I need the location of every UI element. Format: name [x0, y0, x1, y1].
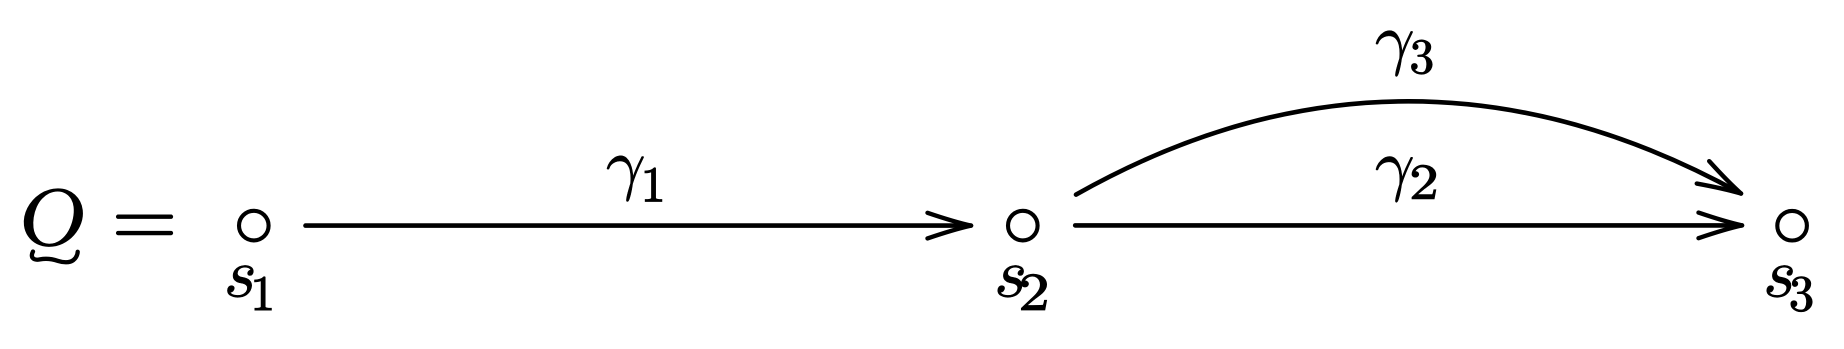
node label s1: subscript 1 — [255, 277, 272, 310]
node label s1: letter s — [227, 265, 253, 297]
arrow gamma2 head — [1699, 213, 1743, 239]
edge label gamma2: subscript 2 — [1412, 165, 1436, 199]
edge label gamma3: subscript 3 — [1411, 40, 1432, 74]
edge label gamma1: gamma — [607, 156, 644, 202]
node s1 circle — [239, 211, 269, 241]
node s3 circle — [1777, 211, 1807, 241]
arrow gamma1 head — [928, 213, 972, 239]
arrow gamma3 curved shaft (s2 to s3) — [1076, 101, 1741, 194]
node label s2: letter s — [998, 265, 1024, 297]
node label s3: letter s — [1767, 265, 1793, 297]
node s2 circle — [1008, 211, 1038, 241]
arrow gamma2 shaft (s2 to s3) — [1075, 223, 1742, 228]
arrow gamma1 shaft (s1 to s2) — [306, 223, 972, 228]
node label s2: subscript 2 — [1022, 274, 1047, 310]
node label s3: subscript 3 — [1791, 277, 1812, 312]
edge label gamma2: gamma — [1376, 157, 1413, 203]
math symbol Q: bowl — [20, 189, 86, 247]
edge label gamma1: subscript 1 — [645, 168, 662, 202]
edge label gamma3: gamma — [1376, 31, 1413, 77]
equals sign — [116, 215, 172, 235]
math symbol Q: swash tail — [32, 252, 78, 263]
arrow gamma3 head — [1697, 161, 1747, 205]
